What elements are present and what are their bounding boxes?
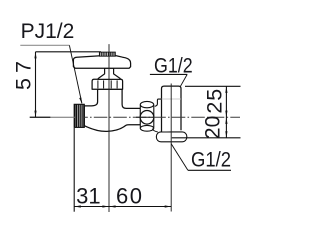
- svg-text:25: 25: [202, 88, 226, 114]
- valve body: [84, 89, 140, 131]
- right dims 25 / 20: [185, 85, 241, 87]
- knurled screw: [99, 52, 115, 56]
- pill top edge visible: [160, 131, 183, 133]
- thread inlet PJ1/2: [74, 104, 84, 127]
- svg-text:31: 31: [76, 184, 100, 209]
- bottom elbow pill: [156, 132, 186, 142]
- union-pill connector: [152, 129, 157, 132]
- dim 57 extension line: [36, 51, 102, 53]
- svg-text:PJ1/2: PJ1/2: [21, 20, 75, 43]
- horizontal centerline (dash-dot): [50, 116, 75, 118]
- svg-text:G1/2: G1/2: [191, 148, 231, 171]
- bottom dim extension lines: [73, 128, 75, 212]
- parting line: [162, 98, 182, 100]
- right pipe G1/2: [162, 86, 182, 132]
- handle: [73, 56, 130, 68]
- stem and bell: [98, 68, 120, 79]
- boss on left of pipe: [155, 99, 162, 106]
- bonnet facet lines: [97, 80, 99, 88]
- vertical centerline valve: [108, 44, 110, 212]
- svg-text:60: 60: [116, 184, 143, 209]
- bottom dim line: [74, 206, 171, 208]
- dim 57 line: [35, 52, 37, 117]
- svg-text:57: 57: [11, 56, 35, 90]
- G1/2 top underline + leader: [150, 73, 187, 75]
- PJ1/2 underline + leader: [20, 44, 69, 46]
- svg-text:20: 20: [201, 116, 224, 139]
- vertical centerline pipe: [170, 84, 172, 212]
- bonnet (hex nut): [92, 79, 123, 89]
- G1/2 bottom leader + underline: [171, 144, 188, 171]
- union nut: [140, 105, 154, 129]
- svg-text:G1/2: G1/2: [154, 54, 193, 78]
